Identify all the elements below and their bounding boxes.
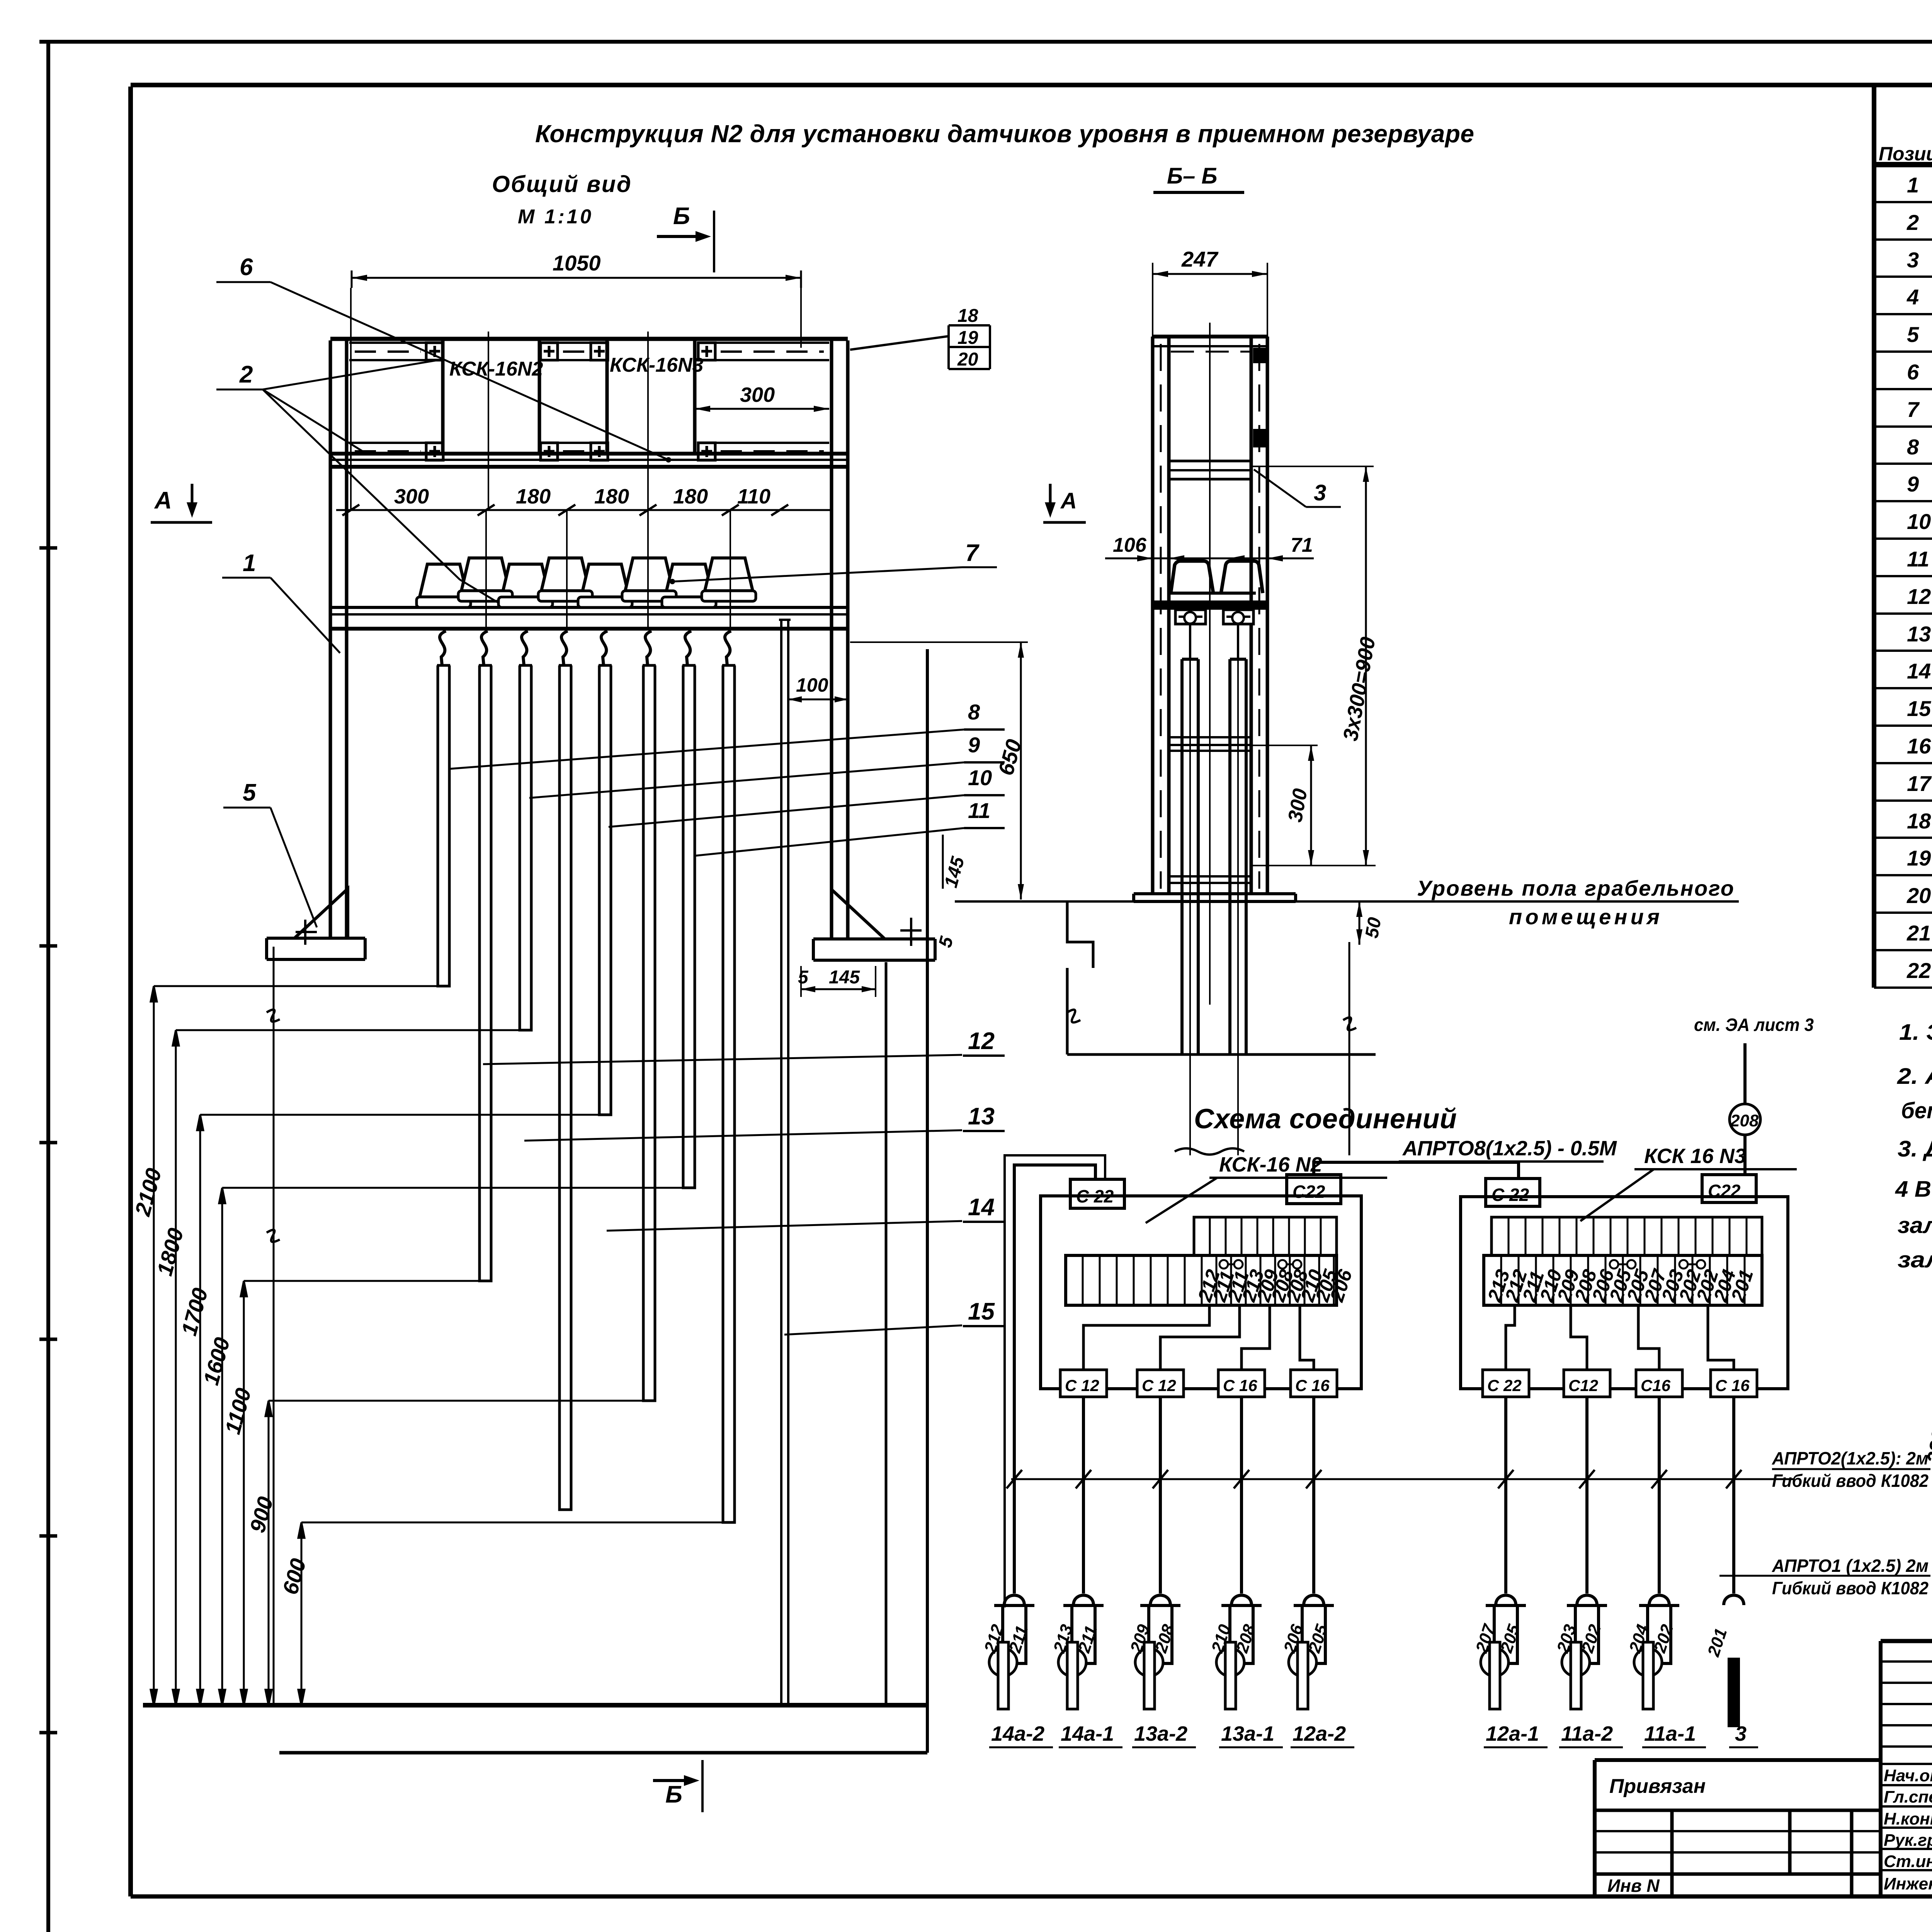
svg-text:71: 71 [1291,534,1313,556]
svg-text:18: 18 [1907,809,1931,833]
svg-text:3: 3 [1735,1722,1747,1745]
svg-text:3: 3 [1907,248,1919,272]
svg-text:18: 18 [957,306,978,326]
svg-text:1. Электрод Э-42 ГОСТ 9467-75: 1. Электрод Э-42 ГОСТ 9467-75 [1899,1020,1932,1045]
svg-text:1: 1 [1907,173,1919,197]
svg-text:300: 300 [394,485,429,508]
svg-text:12а-1: 12а-1 [1486,1722,1539,1745]
svg-text:Конструкция N2 для установки д: Конструкция N2 для установки датчиков ур… [535,120,1474,148]
svg-text:14а-2: 14а-2 [991,1722,1044,1745]
svg-text:Инв N: Инв N [1607,1876,1660,1896]
svg-text:АПРТО8(1х2.5) - 0.5М: АПРТО8(1х2.5) - 0.5М [1402,1137,1617,1160]
svg-text:АПРТО1 (1х2.5) 2м: АПРТО1 (1х2.5) 2м [1772,1556,1929,1576]
svg-text:С 16: С 16 [1223,1376,1257,1395]
svg-text:помещения: помещения [1509,905,1660,929]
svg-text:С 12: С 12 [1142,1376,1176,1395]
svg-text:С12: С12 [1568,1376,1598,1395]
svg-text:Позиция: Позиция [1879,143,1932,165]
svg-text:180: 180 [594,485,629,508]
svg-text:заложения 5.5 и 7.0м: заложения 5.5 и 7.0м [1898,1247,1932,1272]
svg-text:8: 8 [968,700,980,724]
svg-text:1050: 1050 [553,251,601,275]
svg-text:С22: С22 [1293,1182,1325,1202]
svg-text:20: 20 [957,349,978,370]
svg-text:10: 10 [968,765,992,790]
svg-text:Б: Б [665,1781,682,1808]
svg-text:9: 9 [968,733,980,757]
svg-text:15: 15 [968,1298,995,1325]
svg-text:Гл.спец: Гл.спец [1884,1787,1932,1806]
svg-text:Гибкий ввод К1082: Гибкий ввод К1082 [1772,1471,1929,1491]
svg-text:5: 5 [243,779,257,806]
svg-text:АПРТО2(1х2.5): 2м: АПРТО2(1х2.5): 2м [1772,1448,1929,1468]
svg-text:208: 208 [1730,1111,1759,1130]
svg-text:С 16: С 16 [1295,1376,1330,1395]
svg-text:50: 50 [1362,916,1386,940]
svg-text:Инженер: Инженер [1884,1874,1932,1893]
svg-text:14а-1: 14а-1 [1061,1722,1114,1745]
svg-text:С 12: С 12 [1065,1376,1099,1395]
svg-text:13а-2: 13а-2 [1134,1722,1187,1745]
svg-text:КСК-16 N2: КСК-16 N2 [1219,1153,1322,1176]
svg-text:2: 2 [239,361,253,388]
svg-text:С22: С22 [1708,1181,1741,1201]
svg-text:19: 19 [957,328,978,348]
svg-text:17: 17 [1907,771,1932,796]
svg-text:Б– Б: Б– Б [1167,163,1218,189]
svg-text:13: 13 [968,1103,995,1130]
svg-text:14: 14 [968,1194,995,1221]
svg-text:2. Анкерные болты поз.16 под: 2. Анкерные болты поз.16 под стойки зало… [1897,1064,1932,1089]
svg-text:110: 110 [737,485,770,508]
svg-text:106: 106 [1113,534,1147,556]
svg-text:15: 15 [1907,696,1931,721]
svg-text:бетонировании перекрытия приём: бетонировании перекрытия приёмного резер… [1901,1098,1932,1123]
svg-text:22: 22 [1906,958,1931,983]
svg-text:6: 6 [1907,360,1919,384]
svg-text:10: 10 [1907,509,1931,534]
svg-text:11а-1: 11а-1 [1644,1722,1696,1745]
svg-text:КСК-16N3: КСК-16N3 [610,354,704,376]
svg-text:Схема соединений: Схема соединений [1194,1104,1457,1134]
svg-text:12а-2: 12а-2 [1293,1722,1346,1745]
svg-text:М 1:10: М 1:10 [518,206,591,228]
svg-text:С16: С16 [1641,1376,1671,1395]
svg-text:12: 12 [968,1028,995,1054]
svg-text:7: 7 [965,540,980,566]
svg-text:С 22: С 22 [1492,1185,1529,1205]
svg-text:19: 19 [1907,846,1931,870]
svg-text:21: 21 [1906,921,1931,945]
svg-text:16: 16 [1907,734,1931,758]
svg-text:11: 11 [1907,547,1929,571]
svg-text:3: 3 [1314,480,1326,505]
svg-text:заложения подводящего коллекто: заложения подводящего коллектора 4.0м. в… [1898,1213,1932,1238]
svg-text:100: 100 [796,674,828,696]
svg-text:Нач.отд: Нач.отд [1884,1766,1932,1785]
svg-text:4: 4 [1906,285,1919,309]
svg-text:13: 13 [1907,622,1931,646]
svg-text:Привязан: Привязан [1609,1775,1706,1798]
svg-text:9: 9 [1907,472,1919,496]
svg-text:247: 247 [1181,247,1219,271]
svg-text:8: 8 [1907,435,1919,459]
svg-text:12: 12 [1907,584,1931,609]
svg-text:С 22: С 22 [1076,1186,1114,1206]
svg-text:Общий вид: Общий вид [492,171,631,197]
svg-text:3. Деталь поз. 16 см. ЭА лист: 3. Деталь поз. 16 см. ЭА лист 4 поз. 12 [1898,1136,1932,1162]
svg-text:Рук.гр: Рук.гр [1884,1831,1932,1850]
svg-text:Ст.инж: Ст.инж [1884,1852,1932,1871]
svg-text:Б: Б [673,203,690,230]
svg-text:6: 6 [240,254,253,281]
svg-text:145: 145 [829,967,860,988]
svg-text:7: 7 [1907,397,1920,422]
svg-text:Гибкий ввод К1082: Гибкий ввод К1082 [1772,1578,1929,1598]
svg-text:11а-2: 11а-2 [1561,1722,1613,1745]
svg-text:С 16: С 16 [1715,1376,1750,1395]
svg-text:300: 300 [740,383,775,406]
svg-text:А: А [1060,488,1077,514]
svg-text:С 22: С 22 [1487,1376,1522,1395]
svg-text:20: 20 [1906,883,1931,908]
svg-text:180: 180 [673,485,708,508]
svg-text:КСК-16N2: КСК-16N2 [449,358,543,380]
svg-text:2: 2 [1906,210,1919,235]
svg-text:КСК 16 N3: КСК 16 N3 [1644,1145,1746,1168]
svg-text:180: 180 [516,485,551,508]
svg-text:13а-1: 13а-1 [1221,1722,1274,1745]
svg-text:14: 14 [1907,659,1931,683]
svg-text:1: 1 [243,550,256,577]
svg-text:5: 5 [1907,322,1919,347]
svg-text:Уровень пола грабельного: Уровень пола грабельного [1417,876,1734,900]
svg-text:4 В графе „Примечание” указаны: 4 В графе „Примечание” указаны длины тру… [1895,1177,1932,1202]
svg-text:11: 11 [968,798,990,823]
svg-text:А: А [154,487,172,514]
svg-text:см. ЭА лист 3: см. ЭА лист 3 [1694,1015,1814,1035]
svg-text:5: 5 [798,967,809,988]
svg-text:Н.контр: Н.контр [1884,1810,1932,1828]
